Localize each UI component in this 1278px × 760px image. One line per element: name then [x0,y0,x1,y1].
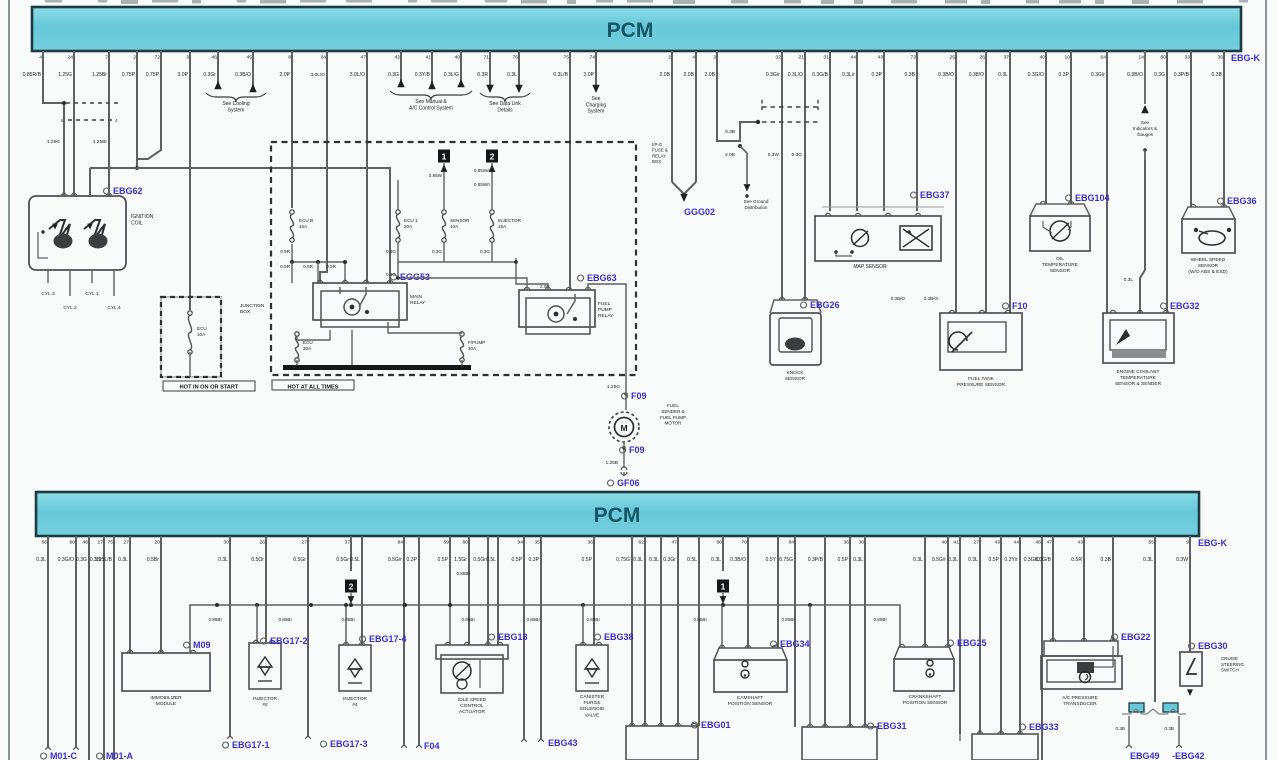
svg-text:IDLE SPEED: IDLE SPEED [458,697,487,703]
svg-text:0.3G: 0.3G [480,249,490,254]
connector EBG01 [692,722,698,728]
svg-text:0.5G/r: 0.5G/r [388,557,402,563]
svg-text:41: 41 [426,55,432,61]
svg-text:0.3L: 0.3L [1143,557,1153,563]
svg-text:RELAY: RELAY [652,153,666,158]
svg-text:0.3B: 0.3B [1212,72,1223,78]
svg-text:46: 46 [83,540,89,546]
svg-text:JUNCTION: JUNCTION [240,303,265,309]
svg-text:0.3L: 0.3L [853,557,863,563]
camshaft position sensor [714,648,787,660]
svg-text:PURGE: PURGE [583,700,600,706]
svg-text:M01-C: M01-C [50,751,78,760]
svg-text:EBG-K: EBG-K [1231,53,1261,63]
svg-text:26: 26 [260,540,266,546]
svg-text:2: 2 [349,581,354,591]
svg-text:0.3B: 0.3B [725,129,735,135]
svg-text:0.5R: 0.5R [303,264,313,269]
svg-text:EBG26: EBG26 [810,300,840,310]
label EBG63 [578,275,584,281]
svg-text:Charging: Charging [586,102,607,108]
svg-text:0.3L: 0.3L [36,557,46,563]
fuel pump relay [519,290,595,327]
svg-text:10A: 10A [197,332,206,337]
svg-text:KNOCK: KNOCK [786,370,804,376]
svg-text:F09: F09 [629,445,645,455]
net: See Data Link Details [489,51,491,85]
svg-text:37: 37 [1004,55,1010,61]
connector EBG31 [868,723,874,729]
connector F09 (top) [624,392,627,395]
svg-text:See: See [592,96,601,102]
svg-text:21: 21 [799,55,805,61]
label EGG53 [391,274,397,280]
svg-text:0.3L/O: 0.3L/O [788,72,803,78]
svg-text:SWITCH: SWITCH [1221,668,1239,673]
svg-text:CRANKSHAFT: CRANKSHAFT [909,694,942,700]
svg-text:Gauges: Gauges [1137,132,1154,137]
svg-text:EBG62: EBG62 [113,186,143,196]
svg-text:FUEL PUMP: FUEL PUMP [660,415,686,420]
svg-text:31: 31 [824,55,830,61]
net marker 2 [486,150,498,163]
svg-text:0.75G: 0.75G [616,557,630,563]
svg-text:0.3G/B: 0.3G/B [1035,557,1051,563]
svg-text:0.5Br: 0.5Br [147,557,159,563]
dashed link rows (coil primary) [66,102,120,104]
svg-text:See: See [1141,120,1150,125]
connectors EBG49 / EBG42 [1127,746,1132,748]
svg-text:IMMOBILIZER: IMMOBILIZER [150,695,182,701]
svg-text:0.3P/B: 0.3P/B [808,557,824,563]
svg-text:MODULE: MODULE [156,701,177,707]
svg-text:PRESSURE SENSOR: PRESSURE SENSOR [957,382,1006,388]
svg-text:0.3L: 0.3L [1124,277,1134,283]
svg-text:43: 43 [1078,540,1084,546]
fuse INJECTOR 15A [490,210,494,214]
svg-text:0.85Br: 0.85Br [456,571,470,576]
connector EBG18 [489,634,495,640]
fuel tank pressure sensor F10 [940,313,1022,370]
svg-text:0.5Gr: 0.5Gr [336,557,349,563]
MAP sensor pressure element [900,226,932,250]
net: Indicators and Gauges [1144,51,1146,104]
svg-text:CYL.3: CYL.3 [41,291,55,297]
svg-text:3.0P: 3.0P [178,72,189,78]
svg-text:2.0B: 2.0B [705,72,716,78]
svg-text:66: 66 [42,540,48,546]
svg-text:60: 60 [70,540,76,546]
svg-text:0.3P: 0.3P [407,557,418,563]
svg-text:See Data Link: See Data Link [489,101,521,107]
wheel speed sensor EBG36 [1182,207,1235,219]
svg-text:#4: #4 [352,702,358,708]
svg-text:SENSOR: SENSOR [450,218,470,223]
svg-text:TEMPERATURE: TEMPERATURE [1042,262,1078,268]
svg-text:A/C Control System: A/C Control System [409,105,453,111]
wire to fuel pump relay coil [515,262,517,290]
svg-text:44: 44 [851,55,857,61]
svg-text:EBG17-1: EBG17-1 [232,740,270,750]
wire relay output to fuel pump circuit [388,322,462,333]
svg-text:STEERING: STEERING [1221,662,1245,667]
svg-text:SENSOR: SENSOR [785,376,806,382]
coil windings [49,220,70,242]
svg-text:0.3L/B: 0.3L/B [553,72,568,78]
connector EBG62 [104,188,110,194]
svg-text:46: 46 [212,55,218,61]
connector EBG26 [801,302,807,308]
svg-text:27: 27 [124,540,130,546]
svg-text:0.3L/G: 0.3L/G [444,72,459,78]
svg-text:14: 14 [1139,55,1145,61]
svg-text:0.3P: 0.3P [872,72,883,78]
svg-text:0.85W/r: 0.85W/r [474,168,491,173]
svg-text:EBG37: EBG37 [920,190,950,200]
main relay grounds [296,327,298,330]
page frame right border [1265,0,1267,760]
svg-text:EBG25: EBG25 [957,638,987,648]
wire pin 4 jog to ignition coil [43,51,64,196]
fuse SENSOR 10A [442,210,446,214]
net: ground merge GGG02 [672,182,684,194]
connector F04 [402,746,407,748]
svg-text:70: 70 [742,540,748,546]
svg-text:EBG-K: EBG-K [1198,538,1228,548]
svg-text:FUEL TANK: FUEL TANK [968,376,995,382]
svg-text:SENDER &: SENDER & [661,409,685,414]
svg-text:CONTROL: CONTROL [460,703,484,709]
main relay [313,283,407,320]
svg-text:HOT IN ON OR START: HOT IN ON OR START [180,385,239,391]
svg-text:CANISTER: CANISTER [580,694,605,700]
svg-text:FUEL: FUEL [667,403,679,408]
svg-text:Distribution: Distribution [745,205,768,210]
svg-text:9: 9 [1186,540,1189,546]
svg-text:0.3B/O: 0.3B/O [1127,72,1143,78]
svg-text:0.3G/O: 0.3G/O [1028,72,1044,78]
svg-text:37: 37 [345,540,351,546]
svg-text:ENGINE COOLANT: ENGINE COOLANT [1117,369,1160,375]
svg-text:80: 80 [463,540,469,546]
svg-text:32: 32 [776,55,782,61]
svg-text:47: 47 [672,540,678,546]
svg-text:0.85Br: 0.85Br [781,617,795,622]
svg-text:0.3G: 0.3G [432,249,442,254]
svg-text:0.3B/O: 0.3B/O [730,557,746,563]
MAP sensor thermistor symbol [852,230,869,247]
svg-text:MOTOR: MOTOR [664,421,682,426]
svg-text:73: 73 [911,55,917,61]
wire coil output CYL.1 [91,270,93,283]
svg-text:F04: F04 [424,741,440,751]
svg-text:47: 47 [1047,540,1053,546]
svg-text:3.0P: 3.0P [584,72,595,78]
svg-text:ECU 1: ECU 1 [404,218,418,223]
net marker 1 (bottom) [717,580,729,593]
main relay contact [359,287,366,307]
svg-text:0.3B/O: 0.3B/O [938,72,954,78]
svg-text:EBG63: EBG63 [587,273,617,283]
svg-text:ECU: ECU [303,340,313,345]
MAP sensor [815,216,941,261]
svg-text:0.3L: 0.3L [507,72,517,78]
svg-text:36: 36 [844,540,850,546]
svg-text:36: 36 [588,540,594,546]
svg-text:0.85Br: 0.85Br [341,617,355,622]
svg-text:4: 4 [39,55,42,61]
svg-text:0.85W: 0.85W [429,173,443,178]
svg-text:84: 84 [789,540,795,546]
ground GF06 [623,472,625,476]
net marker 2 (bottom) [345,580,357,593]
svg-text:0.3W: 0.3W [768,152,780,158]
svg-text:EBG31: EBG31 [877,721,907,731]
svg-text:INJECTOR: INJECTOR [253,696,277,702]
svg-text:0.5L: 0.5L [687,557,697,563]
fuse and relay box (dashed, HOT AT ALL TIMES) [271,142,636,375]
svg-text:76: 76 [513,55,519,61]
svg-text:35: 35 [535,540,541,546]
svg-text:40: 40 [942,540,948,546]
svg-text:EBG18: EBG18 [498,632,528,642]
svg-text:BOX: BOX [240,309,251,315]
svg-text:24: 24 [68,55,74,61]
svg-text:0.5Gr: 0.5Gr [473,557,486,563]
svg-text:1: 1 [442,151,447,161]
idle speed control actuator [436,645,508,659]
net: See Charging System [595,51,597,85]
cruise steering switch [1180,652,1202,686]
connector M01-C [46,748,51,750]
svg-text:0.5Or: 0.5Or [251,557,264,563]
svg-text:0.5P: 0.5P [989,557,1000,563]
svg-text:3: 3 [186,55,189,61]
svg-text:EBG17-3: EBG17-3 [330,739,368,749]
svg-text:27: 27 [974,540,980,546]
svg-text:(W/O ABS & ESD): (W/O ABS & ESD) [1188,269,1228,275]
svg-text:System: System [228,107,245,113]
svg-text:42: 42 [395,55,401,61]
net marker 1 [438,150,450,163]
svg-text:CYL.2: CYL.2 [63,305,77,311]
fuse F/PUMP 30A [460,332,464,336]
svg-text:45: 45 [247,55,253,61]
net: See Cooling System [217,51,219,89]
svg-text:0.3G: 0.3G [1154,72,1165,78]
MAP connector bar [822,206,944,208]
canister purge solenoid valve [576,645,608,691]
svg-text:F09: F09 [631,391,647,401]
injector #2 [249,643,281,689]
svg-text:33: 33 [1185,55,1191,61]
svg-text:0.3P: 0.3P [529,557,540,563]
svg-text:POSITION SENSOR: POSITION SENSOR [728,701,773,707]
svg-text:PUMP: PUMP [598,307,612,313]
MAP internal wires [836,252,852,256]
svg-text:0.3L: 0.3L [968,557,978,563]
svg-text:0.85Br: 0.85Br [526,617,540,622]
wire coil output CYL.2 [69,270,71,296]
svg-text:0.85Br: 0.85Br [461,617,475,622]
svg-text:47: 47 [361,55,367,61]
coil internal links [38,232,48,258]
svg-text:0.3B: 0.3B [1165,726,1174,731]
connector M09 [184,642,190,648]
svg-text:See Ground: See Ground [744,199,769,204]
ignition coil assembly [29,196,126,270]
fuse ECU 30A [295,332,299,336]
svg-text:EBG49: EBG49 [1130,751,1160,760]
svg-text:25: 25 [950,55,956,61]
svg-text:CYL.4: CYL.4 [107,305,121,311]
svg-text:0.5G/r: 0.5G/r [932,557,946,563]
svg-text:0.3B: 0.3B [1116,726,1125,731]
svg-text:0.85Br: 0.85Br [586,617,600,622]
svg-text:1.25G: 1.25G [607,384,620,390]
svg-text:Indicators &: Indicators & [1133,126,1157,131]
svg-text:M09: M09 [193,640,211,650]
svg-text:0.85W/r: 0.85W/r [474,182,491,187]
svg-text:M01-A: M01-A [106,751,134,760]
svg-text:1: 1 [721,581,726,591]
svg-text:30A: 30A [468,346,477,351]
svg-text:#2: #2 [262,702,268,708]
connector EBG25 [948,640,954,646]
svg-text:GF06: GF06 [617,478,640,488]
svg-text:0.3L: 0.3L [118,557,128,563]
knock sensor [770,300,821,313]
wire EBG62 connector row [73,190,75,196]
svg-text:CAMSHAFT: CAMSHAFT [737,695,763,701]
svg-text:1.25Br: 1.25Br [93,139,108,145]
wire to coolant sensor middle pin [1140,160,1145,313]
svg-text:0.5Gr: 0.5Gr [293,557,306,563]
svg-text:RELAY: RELAY [598,313,614,319]
svg-text:0.5R: 0.5R [280,249,290,254]
connector EBG22 [1112,634,1118,640]
svg-text:EBG104: EBG104 [1075,193,1110,203]
svg-text:GGG02: GGG02 [684,207,715,217]
svg-text:3.0L/O: 3.0L/O [350,72,365,78]
svg-text:0.3B/O: 0.3B/O [235,72,251,78]
svg-text:3.0L/O: 3.0L/O [311,72,326,78]
svg-text:0.3L: 0.3L [711,557,721,563]
svg-text:RELAY: RELAY [410,300,426,306]
wire pin 3 jog to ground distribution [717,51,756,141]
svg-text:1.25G: 1.25G [58,72,72,78]
wire pin 72 jog [137,51,161,159]
svg-text:27: 27 [302,540,308,546]
svg-text:0.5P: 0.5P [838,557,849,563]
svg-text:ECU B: ECU B [299,218,313,223]
crankshaft position sensor [894,647,954,659]
wire coil output CYL.3 [47,270,49,283]
svg-text:0.5L: 0.5L [486,557,496,563]
connector EBG43 [522,740,527,742]
connector EBG38 [595,634,601,640]
svg-text:HOT AT ALL TIMES: HOT AT ALL TIMES [288,385,339,391]
svg-text:71: 71 [484,55,490,61]
junction box (dashed) [161,297,221,377]
svg-text:SENSOR: SENSOR [1198,263,1219,269]
svg-text:0.3G: 0.3G [388,72,399,78]
connector EBG34 [771,641,777,647]
svg-text:EBG36: EBG36 [1227,196,1257,206]
svg-text:0.3B: 0.3B [905,72,916,78]
immobilizer module [122,653,210,691]
svg-text:26: 26 [980,55,986,61]
connector EBG37 [911,192,917,198]
svg-text:INJECTOR: INJECTOR [498,218,522,223]
svg-text:0.3W: 0.3W [1176,557,1188,563]
wire fuel pump ground [623,452,625,468]
oil temperature sensor EBG104 [1030,204,1090,216]
svg-text:IGNITION: IGNITION [131,214,154,220]
svg-text:0.3G/r: 0.3G/r [1091,72,1105,78]
svg-text:POSITION SENSOR: POSITION SENSOR [903,700,948,706]
svg-text:0.3L: 0.3L [948,557,958,563]
fuse ECU 1 20A [396,210,400,214]
svg-text:0.5R: 0.5R [280,264,290,269]
svg-text:PCM: PCM [594,504,641,527]
svg-text:0.5R: 0.5R [326,264,336,269]
A/C pressure transducer [1044,641,1118,656]
svg-text:FUSE &: FUSE & [652,148,668,153]
svg-text:EBG33: EBG33 [1029,722,1059,732]
svg-text:EBG17-2: EBG17-2 [270,636,308,646]
page header remnants [45,0,62,3]
wire coil output CYL.4 [113,270,115,296]
svg-text:0.3G/r: 0.3G/r [766,72,780,78]
wire ignition feed horizontal [90,168,390,283]
svg-text:1.25G: 1.25G [47,139,60,145]
svg-text:0.38/O: 0.38/O [969,72,984,78]
svg-text:0.3L: 0.3L [218,557,228,563]
wire fuel pump relay output [588,284,626,375]
svg-text:0.5P: 0.5P [438,557,449,563]
svg-text:0.85R/B: 0.85R/B [23,72,42,78]
svg-text:F10: F10 [1012,301,1028,311]
svg-text:0.3P/B: 0.3P/B [1174,72,1190,78]
svg-text:17: 17 [98,540,104,546]
page frame left border [8,0,10,760]
label HOT IN ON OR START [163,381,255,391]
svg-text:0.3G: 0.3G [792,152,803,158]
svg-text:0.3B/O: 0.3B/O [891,296,906,301]
svg-text:See Cooling: See Cooling [222,101,249,107]
svg-text:40: 40 [1040,55,1046,61]
svg-text:0.3Gr: 0.3Gr [663,557,676,563]
svg-text:EBG22: EBG22 [1121,632,1151,642]
connector EBG17-4 [360,636,366,642]
connector EBG32 [1161,303,1167,309]
svg-text:System: System [588,109,605,115]
connector EBG17-1 [228,737,233,739]
label HOT AT ALL TIMES [272,380,354,390]
bus drops [256,605,258,643]
svg-text:4: 4 [692,55,695,61]
PCM module bar (bottom) [36,492,1199,536]
svg-text:PCM: PCM [607,19,654,42]
svg-text:2.0B: 2.0B [660,72,671,78]
svg-text:0.5P: 0.5P [512,557,523,563]
svg-text:J: J [115,118,117,123]
svg-text:2: 2 [490,151,495,161]
torn-edge mark [1122,709,1186,714]
svg-text:0.3Gr: 0.3Gr [203,72,216,78]
svg-text:INJECTOR: INJECTOR [343,696,367,702]
